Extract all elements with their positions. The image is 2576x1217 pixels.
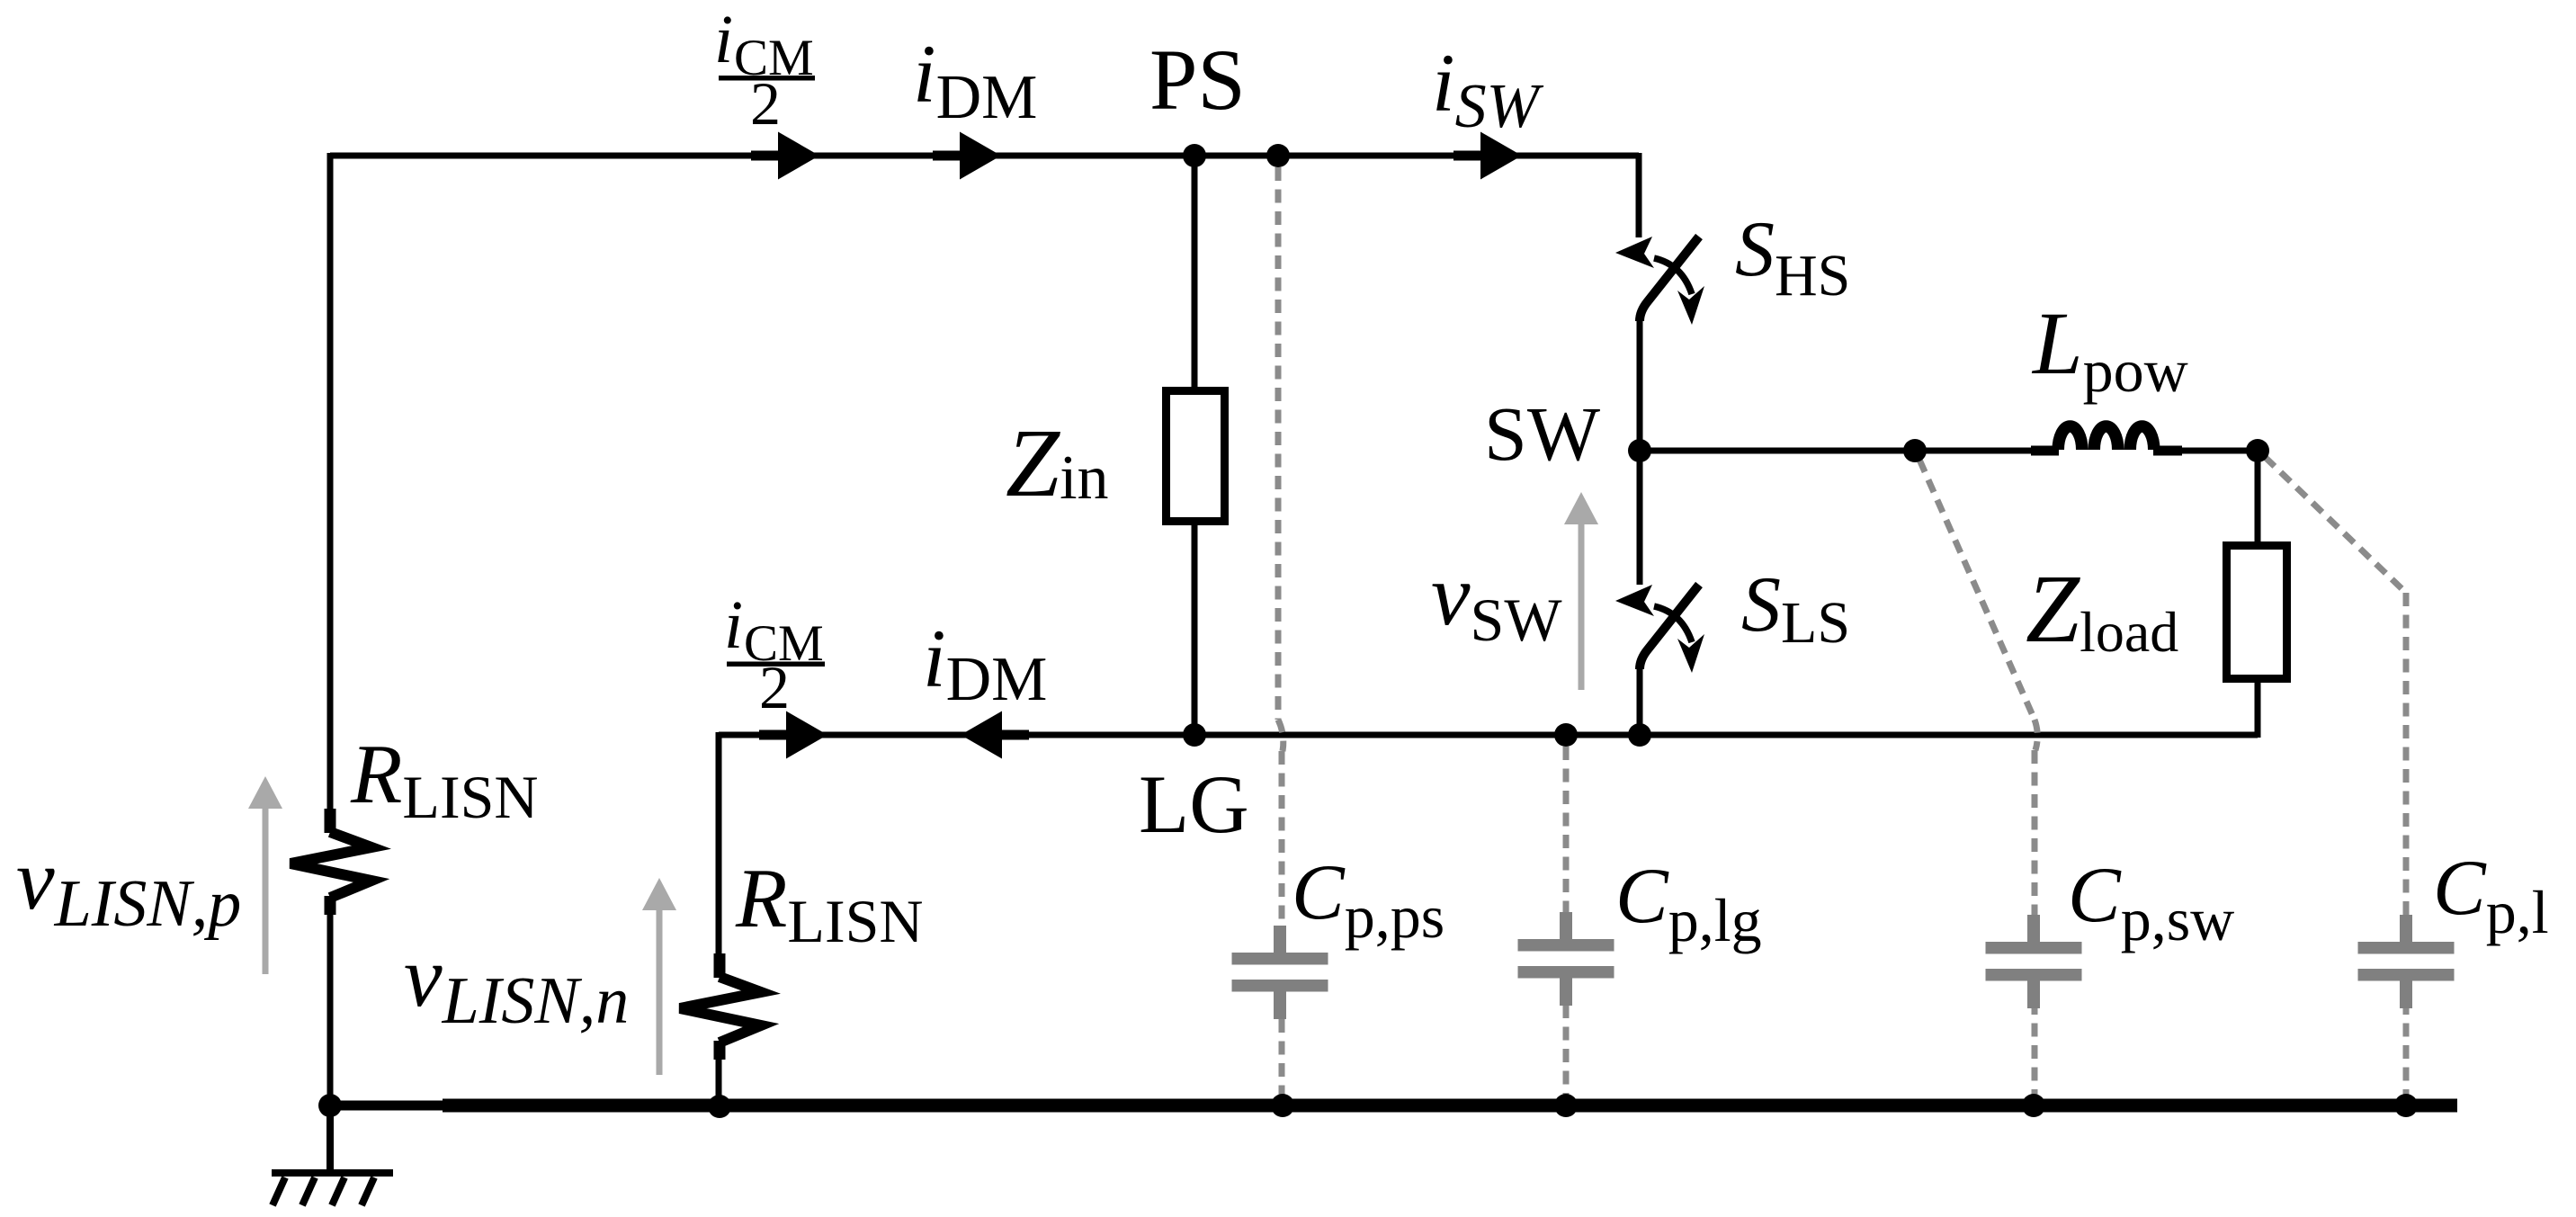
- svg-text:vLISN,p: vLISN,p: [16, 831, 241, 941]
- arrow v_SW: [1564, 492, 1598, 690]
- wire dashed parasitic C_p,lg vertical: [1563, 747, 1570, 1099]
- label i_CM/2 top: [714, 2, 815, 138]
- resistor R_LISN negative line: [680, 953, 761, 1060]
- node ground bus C_p,l junction: [2394, 1094, 2418, 1117]
- arrow v_LISN,p: [248, 776, 282, 974]
- svg-text:2: 2: [750, 69, 781, 138]
- label i_CM/2 bottom: [724, 587, 825, 721]
- svg-text:LG: LG: [1139, 758, 1249, 850]
- wire Z_in top lead: [1192, 156, 1198, 387]
- svg-text:SHS: SHS: [1735, 206, 1850, 309]
- impedance Z_load: [2227, 546, 2287, 679]
- node Z_load top junction: [2246, 439, 2269, 462]
- wire ground bus: [330, 1101, 450, 1111]
- wire S_LS lower lead to LG: [1637, 668, 1643, 735]
- wire left LISN-p vertical lower: [327, 911, 334, 1105]
- arrow i_DM bottom: [961, 711, 1002, 759]
- wire LISN-n vertical lower: [716, 1056, 722, 1105]
- node S_LS bottom junction: [1628, 723, 1651, 747]
- inductor L_pow: [2031, 426, 2182, 451]
- svg-text:i: i: [714, 2, 733, 77]
- capacitor C_p,lg: [1518, 912, 1614, 1006]
- svg-text:iDM: iDM: [913, 28, 1037, 132]
- node ground bus C_p,lg junction: [1554, 1094, 1578, 1117]
- capacitor C_p,ps: [1232, 926, 1328, 1019]
- node C_p,lg tap junction: [1554, 723, 1578, 747]
- arrow i_CM/2 top: [778, 132, 819, 180]
- wire SW to S_LS upper lead: [1637, 451, 1643, 585]
- svg-text:PS: PS: [1149, 31, 1246, 128]
- wire dashed parasitic C_p,l diagonal and vertical: [2265, 457, 2406, 1099]
- svg-text:RLISN: RLISN: [735, 852, 924, 955]
- wire L_pow to Z_load top node: [2159, 448, 2258, 454]
- wire left LISN-p vertical upper: [327, 153, 334, 810]
- node ground bus left junction: [318, 1094, 342, 1117]
- svg-text:vSW: vSW: [1431, 547, 1562, 654]
- svg-text:SLS: SLS: [1741, 561, 1850, 656]
- svg-text:Cp,l: Cp,l: [2433, 845, 2549, 946]
- svg-text:RLISN: RLISN: [350, 728, 539, 831]
- resistor R_LISN positive line: [291, 809, 371, 915]
- svg-text:iSW: iSW: [1432, 37, 1544, 141]
- wire S_HS lower lead to SW: [1637, 321, 1643, 453]
- wire LISN-n vertical upper: [716, 732, 722, 955]
- node LG junction: [1183, 723, 1206, 747]
- node ground bus R_LISN junction: [708, 1095, 731, 1118]
- ground: [272, 1105, 393, 1205]
- wire LG horizontal: [719, 732, 2258, 738]
- capacitor C_p,l: [2358, 915, 2455, 1008]
- node SW junction: [1628, 439, 1651, 462]
- wire Z_in bottom lead: [1192, 525, 1198, 735]
- arrow i_CM/2 bottom: [786, 711, 827, 759]
- svg-text:i: i: [724, 587, 743, 663]
- node C_p,sw tap junction: [1903, 439, 1927, 462]
- arrow v_LISN,n: [642, 878, 676, 1075]
- impedance Z_in: [1167, 391, 1225, 522]
- switch S_HS: [1615, 237, 1704, 325]
- wire SW node to L_pow: [1640, 448, 2035, 454]
- svg-text:Zload: Zload: [2026, 556, 2178, 664]
- node C_p,ps tap junction: [1266, 144, 1290, 167]
- wire Z_load top lead: [2255, 448, 2261, 541]
- svg-text:Cp,ps: Cp,ps: [1292, 849, 1445, 951]
- wire top bus from LISN to S_HS elbow: [330, 153, 1639, 159]
- svg-text:Cp,sw: Cp,sw: [2068, 852, 2234, 953]
- node ground bus C_p,ps junction: [1271, 1094, 1294, 1117]
- svg-text:Zin: Zin: [1006, 410, 1109, 517]
- svg-text:iDM: iDM: [923, 613, 1047, 714]
- node ground bus C_p,sw junction: [2022, 1094, 2045, 1117]
- arrow i_SW: [1480, 132, 1522, 180]
- wire S_HS upper lead: [1636, 153, 1642, 237]
- svg-text:2: 2: [759, 653, 790, 721]
- svg-text:Cp,lg: Cp,lg: [1615, 853, 1762, 954]
- wire dashed parasitic C_p,ps vertical: [1278, 167, 1284, 1099]
- node PS junction: [1183, 144, 1206, 167]
- arrow i_DM top: [960, 132, 1001, 180]
- wire dashed parasitic C_p,sw diagonal and vertical: [1919, 460, 2037, 1099]
- switch S_LS: [1615, 585, 1704, 673]
- svg-text:SW: SW: [1484, 390, 1600, 477]
- svg-text:Lpow: Lpow: [2031, 293, 2188, 405]
- capacitor C_p,sw: [1986, 915, 2082, 1008]
- wire Z_load bottom lead: [2255, 683, 2261, 738]
- svg-text:vLISN,n: vLISN,n: [404, 928, 629, 1038]
